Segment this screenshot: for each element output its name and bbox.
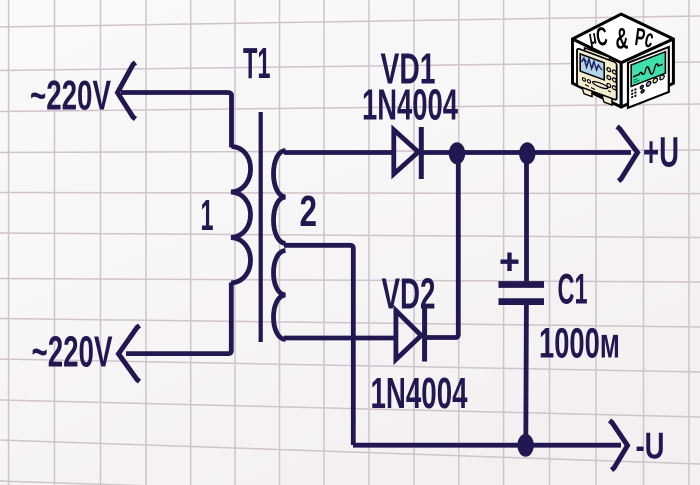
node arrow ~220V top bbox=[118, 63, 136, 120]
wire VD2 cathode up to +U rail bbox=[426, 154, 458, 338]
capacitor C1 bottom plate bbox=[499, 298, 545, 305]
logo analyzer right face bbox=[628, 47, 669, 108]
logo cube right face bbox=[621, 39, 673, 107]
svg-text:1: 1 bbox=[201, 191, 214, 240]
node arrow +U bbox=[617, 127, 638, 182]
wire bottom input L from primary bbox=[126, 283, 231, 354]
diode VD1 cathode bar bbox=[419, 127, 424, 179]
svg-text:~220V: ~220V bbox=[30, 72, 111, 119]
junction node VD1 cathode / VD2 bbox=[449, 142, 465, 164]
transformer T1 primary winding bbox=[231, 147, 251, 284]
svg-text:T1: T1 bbox=[243, 39, 271, 88]
svg-text:&: & bbox=[616, 23, 629, 56]
capacitor C1 top plate bbox=[499, 281, 545, 288]
svg-text:1000м: 1000м bbox=[539, 320, 620, 368]
svg-text:-U: -U bbox=[636, 426, 665, 467]
svg-text:1N4004: 1N4004 bbox=[371, 369, 468, 418]
wire VD1 cathode to +U rail bbox=[423, 150, 631, 155]
logo cube top face bbox=[573, 14, 674, 63]
logo oscilloscope left face bbox=[577, 45, 617, 107]
transformer T1 secondary upper winding bbox=[274, 151, 286, 244]
wire bottom -U rail bbox=[353, 443, 621, 448]
wire +U rail to capacitor C1 bbox=[524, 154, 529, 281]
junction node -U rail / C1 bbox=[517, 434, 533, 457]
svg-text:2: 2 bbox=[300, 187, 318, 236]
capacitor C1 plus polarity mark bbox=[501, 253, 519, 272]
wire center tap to bottom rail bbox=[284, 245, 353, 445]
junction node +U rail / C1 bbox=[519, 142, 535, 164]
node arrow ~220V bottom bbox=[119, 326, 140, 382]
transformer T1 core bbox=[259, 112, 263, 342]
wire secondary bottom lead to VD2 bbox=[284, 336, 395, 341]
logo cube left face bbox=[573, 39, 622, 107]
logo text uC & Pc bbox=[587, 21, 657, 56]
wire capacitor C1 to -U rail bbox=[523, 305, 528, 445]
diode VD2 bbox=[396, 311, 421, 360]
diode VD1 bbox=[394, 130, 419, 174]
svg-text:C1: C1 bbox=[558, 266, 588, 314]
diode VD2 cathode bar bbox=[422, 309, 427, 362]
wire top input L to transformer primary bbox=[121, 93, 232, 148]
svg-text:VD2: VD2 bbox=[382, 270, 436, 319]
transformer T1 secondary lower winding bbox=[274, 251, 286, 340]
svg-text:1N4004: 1N4004 bbox=[362, 81, 458, 130]
svg-text:+U: +U bbox=[643, 129, 679, 177]
logo: uC & Pc cube emblem bbox=[573, 14, 674, 108]
svg-text:~220V: ~220V bbox=[32, 328, 113, 377]
wire secondary top lead to VD1 bbox=[284, 150, 392, 155]
node arrow -U bbox=[610, 421, 628, 471]
